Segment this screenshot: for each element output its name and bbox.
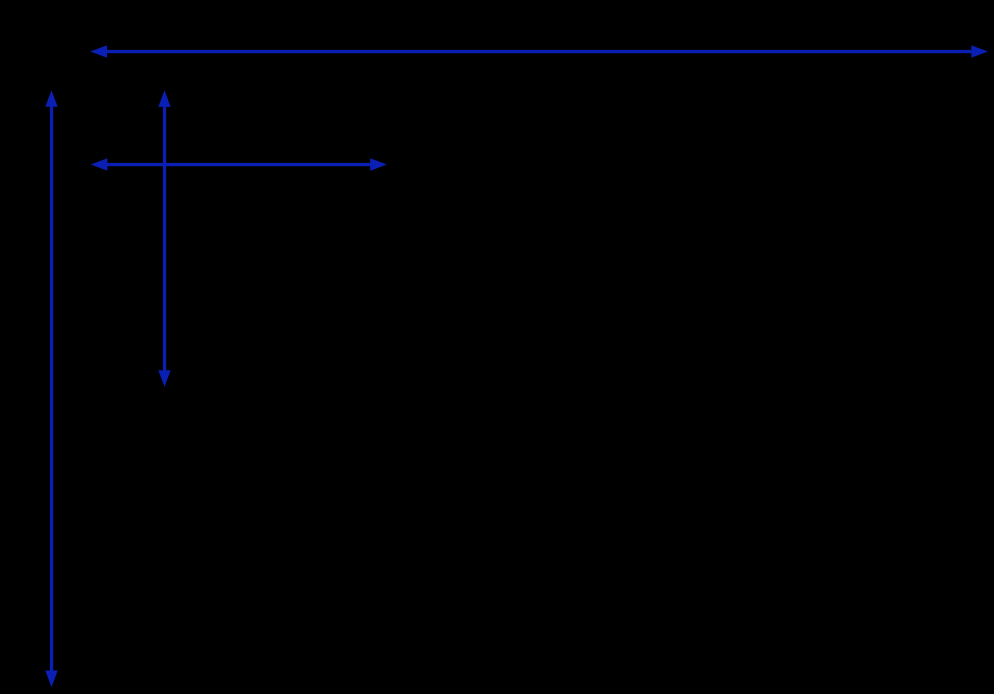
dimension arrow W1 (full-width horizontal double arrow, top) — [90, 45, 988, 57]
dimension arrow H1 (full-height vertical double arrow, left) — [45, 90, 57, 687]
dimension arrow H2 (short vertical double arrow, second column) — [158, 90, 170, 387]
dimension arrow W2 (short horizontal double arrow, crosses H2) — [91, 158, 387, 170]
